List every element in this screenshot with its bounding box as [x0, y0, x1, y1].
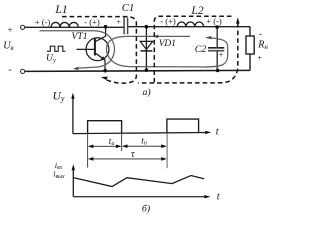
- svg-text:-: -: [8, 65, 11, 76]
- terminal input plus: [21, 25, 25, 29]
- svg-text:+: +: [257, 52, 262, 62]
- capacitor C1: [124, 18, 128, 35]
- wire top rail left: [25, 26, 124, 28]
- node C2 top: [215, 25, 219, 29]
- inductor L2: [177, 22, 203, 27]
- svg-text:+ (-): + (-): [206, 16, 222, 26]
- current ripple waveform: [73, 176, 204, 187]
- wire bottom rail: [25, 70, 250, 71]
- pulse 1: [88, 121, 122, 134]
- resistor Rn: [246, 36, 254, 54]
- svg-text:а): а): [143, 87, 151, 98]
- svg-text:Uв: Uв: [3, 41, 13, 53]
- node collector top: [104, 25, 108, 29]
- svg-text:τ: τ: [131, 149, 135, 160]
- svg-text:- (+): - (+): [84, 17, 100, 27]
- dimension tau: [89, 158, 166, 160]
- svg-text:t: t: [216, 126, 220, 137]
- svg-text:+: +: [219, 51, 224, 60]
- node diode top: [145, 25, 149, 29]
- diode VD1: [140, 27, 153, 71]
- svg-text:C1: C1: [122, 2, 135, 14]
- svg-text:VD1: VD1: [159, 39, 176, 49]
- svg-text:t: t: [217, 192, 221, 203]
- node emitter bottom: [103, 69, 107, 73]
- waveform i axis horizontal: [73, 196, 206, 198]
- svg-text:Uу: Uу: [46, 53, 56, 65]
- svg-text:VT1: VT1: [72, 31, 88, 42]
- inductor L1: [51, 22, 78, 27]
- dashed loop B left vertical and top over L2: [154, 16, 233, 82]
- dimension t_i: [89, 145, 120, 147]
- svg-text:Uу: Uу: [53, 89, 65, 103]
- svg-text:+: +: [7, 25, 12, 35]
- svg-text:+ (-): + (-): [35, 17, 51, 27]
- svg-text:L1: L1: [54, 4, 67, 16]
- arrow loop 1: [73, 67, 79, 71]
- arrow Uy axis: [71, 93, 74, 99]
- node diode bottom: [145, 68, 149, 72]
- svg-text:б): б): [142, 203, 150, 214]
- extension line pulse1 start: [87, 133, 89, 167]
- pulse 2: [167, 119, 199, 133]
- dashed loop B right side: [138, 23, 238, 83]
- extension line pulse1 end: [121, 133, 123, 151]
- svg-text:tи: tи: [109, 136, 115, 147]
- current loop 1 solid: [40, 31, 115, 69]
- dimension t_p: [123, 145, 165, 147]
- extension line pulse2 start: [166, 133, 168, 168]
- current loop 2 solid: [106, 36, 227, 67]
- terminal input minus: [21, 69, 25, 73]
- dashed loop A over L1 C1: [62, 17, 136, 84]
- wire load bottom: [249, 54, 251, 71]
- waveform i axis vertical: [72, 168, 74, 197]
- node C2 bottom: [216, 69, 220, 73]
- waveform Uy axis horizontal: [73, 133, 208, 134]
- wire right side down to load: [249, 27, 251, 36]
- arrow t axis 2: [204, 195, 210, 198]
- svg-text:-: -: [259, 29, 262, 39]
- transistor VT1: [77, 27, 109, 71]
- arrow loop 2 mid: [152, 35, 158, 38]
- arrow dashed loop B up: [236, 17, 240, 23]
- arrow t axis 1: [205, 131, 211, 134]
- svg-text:tп: tп: [141, 135, 147, 146]
- svg-text:L2: L2: [190, 5, 203, 17]
- svg-text:+: +: [116, 18, 121, 27]
- wire top rail right: [128, 26, 250, 28]
- waveform Uy axis vertical: [72, 97, 74, 134]
- capacitor C2: [208, 27, 224, 70]
- control square wave Uy: [47, 46, 66, 51]
- svg-text:C2: C2: [195, 44, 207, 55]
- arrow dashed loop A: [101, 77, 108, 80]
- arrow loop 2 right: [205, 36, 211, 39]
- svg-text:- (+): - (+): [160, 16, 176, 26]
- svg-text:iвх: iвх: [55, 160, 63, 171]
- arrow i axis: [72, 164, 75, 170]
- svg-text:Rн: Rн: [257, 39, 268, 51]
